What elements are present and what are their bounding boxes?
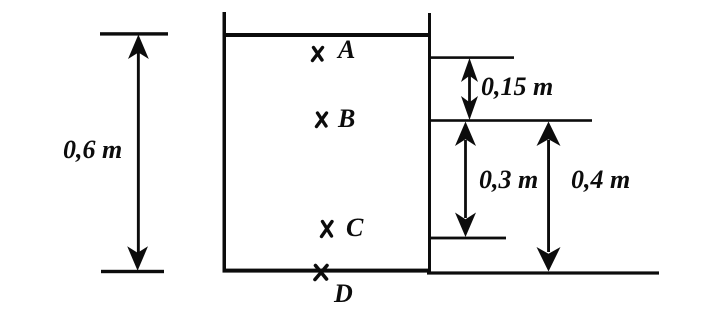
left dim top tick: [100, 32, 168, 35]
level A tick line: [430, 56, 514, 59]
point B cross: [317, 113, 327, 127]
svg-text:B: B: [337, 104, 355, 133]
0,15 m arrowhead up: [461, 58, 478, 82]
water surface line: [223, 33, 432, 37]
0,3 m arrow shaft: [464, 140, 467, 218]
left dim bottom tick: [101, 270, 164, 273]
tank left wall: [223, 12, 227, 272]
0,6 m arrowhead up: [128, 35, 149, 60]
0,6 m arrowhead down: [127, 246, 148, 270]
svg-text:0,3 m: 0,3 m: [479, 165, 538, 194]
0,4 m arrowhead down: [537, 247, 561, 272]
point A cross: [313, 48, 323, 61]
0,6 m arrow shaft: [137, 50, 140, 260]
svg-text:0,4 m: 0,4 m: [571, 165, 630, 194]
0,3 m arrowhead up: [455, 122, 476, 147]
point C cross: [322, 222, 333, 237]
svg-text:A: A: [336, 35, 355, 64]
svg-text:D: D: [333, 279, 353, 308]
svg-text:0,6 m: 0,6 m: [63, 135, 122, 164]
0,4 m arrowhead up: [537, 122, 561, 147]
svg-text:C: C: [346, 213, 364, 242]
tank right wall: [428, 13, 431, 273]
0,15 m arrowhead down: [461, 96, 478, 120]
point D cross: [315, 266, 327, 280]
tank bottom line: [223, 269, 432, 273]
0,3 m arrowhead down: [455, 213, 476, 238]
level B tick line: [430, 119, 592, 122]
svg-text:0,15 m: 0,15 m: [481, 72, 553, 101]
0,15 m arrow shaft: [468, 75, 471, 103]
level C tick line: [430, 237, 506, 240]
0,4 m arrow shaft: [547, 140, 550, 252]
ground line right of tank: [427, 271, 659, 274]
